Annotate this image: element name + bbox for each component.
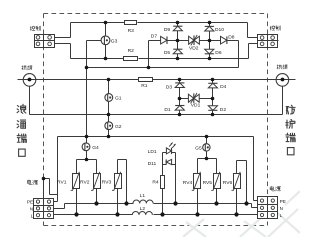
wire left control pin2 to row2 rail (55, 43, 71, 45)
diode D8 (221, 36, 227, 44)
wire RV4 bottom lead (197, 189, 199, 215)
svg-text:RV3: RV3 (102, 180, 112, 186)
wire left control pin1 to rail (55, 37, 71, 39)
wire R4 chain (162, 165, 164, 176)
svg-text:VD2: VD2 (189, 45, 199, 51)
wire RV4 top lead (197, 159, 199, 174)
wire enclosure bond (43, 179, 45, 199)
varistor RV1 (73, 174, 80, 189)
svg-text:L: L (31, 213, 34, 218)
wire L rail (54, 214, 133, 216)
diode D10 (205, 26, 214, 31)
svg-text:L1: L1 (140, 193, 146, 199)
svg-text:L2: L2 (140, 206, 146, 212)
svg-text:D1: D1 (164, 107, 171, 113)
diode D9 (173, 26, 182, 31)
diode D2 (208, 106, 217, 111)
wire N rail (54, 208, 65, 210)
inductor L2 (132, 212, 152, 215)
wire row2 rail (71, 58, 124, 60)
svg-text:RV4: RV4 (183, 180, 193, 186)
wire lower bridge left column (179, 80, 181, 115)
resistor R1 (139, 78, 153, 82)
wire LED loop right drop to N (175, 165, 177, 204)
wire G3 column (105, 23, 107, 59)
wire top control rail (71, 22, 125, 24)
tvs VD2 (189, 35, 200, 45)
svg-text:R3: R3 (128, 28, 135, 34)
inductor L1 (133, 200, 153, 203)
gas tube G4 (82, 143, 90, 151)
svg-text:G1: G1 (115, 96, 122, 102)
svg-text:G5: G5 (195, 146, 202, 152)
svg-text:D9: D9 (164, 27, 171, 33)
led LD1 (166, 143, 175, 155)
gas tube G2 (105, 122, 113, 130)
svg-text:LD1: LD1 (148, 149, 157, 155)
label power left (27, 180, 31, 185)
wire G5 column (206, 137, 208, 159)
wire RV1 top lead (76, 160, 78, 174)
wire right control pin1 to rail (247, 23, 249, 38)
diode D4 (208, 83, 217, 88)
gas tube G1 (105, 94, 113, 102)
connector control left (35, 35, 55, 48)
varistor RV6 (234, 174, 241, 189)
svg-text:D2: D2 (220, 107, 227, 113)
diode D6 (205, 49, 214, 54)
diode D7 (161, 36, 167, 44)
wire common rail y67 (87, 67, 239, 69)
label surge port (17, 104, 26, 113)
connector power left (34, 199, 54, 219)
svg-text:D11: D11 (148, 161, 157, 167)
svg-text:G3: G3 (111, 38, 118, 44)
wire clamp mid row (149, 40, 161, 42)
varistor RV2 (94, 174, 101, 189)
wire RV2 top lead (96, 160, 98, 174)
label protect port (286, 105, 295, 114)
wire D7 branch down (148, 41, 150, 68)
node bar RV4 RV5 (198, 158, 217, 160)
svg-text:PE: PE (27, 200, 33, 205)
svg-text:RV2: RV2 (80, 180, 90, 186)
wire RV3 top jog to N rail (117, 160, 119, 174)
wire D8 branch down (238, 41, 240, 68)
label video left (22, 66, 27, 70)
svg-text:N: N (280, 206, 283, 211)
wire G3 side lead (87, 40, 102, 42)
wire right control pin2 to row2 rail (249, 43, 258, 45)
svg-text:G2: G2 (115, 124, 122, 130)
label video right (277, 65, 282, 69)
wire G1 G2 column (108, 80, 110, 137)
resistor R3 (125, 21, 137, 25)
resistor R4 (161, 176, 165, 189)
svg-text:R2: R2 (128, 48, 135, 54)
wire RV1 bottom lead (76, 189, 78, 215)
svg-text:VD1: VD1 (191, 103, 201, 109)
wire RV2 bottom lead (96, 189, 98, 204)
svg-text:L: L (280, 213, 283, 218)
wire PE right drop (253, 137, 255, 201)
svg-text:D3: D3 (166, 84, 173, 90)
watermark strokes (183, 191, 300, 237)
wire RV5 bottom lead (216, 189, 218, 204)
label control left (30, 26, 35, 30)
varistor RV4 (194, 174, 201, 189)
label power right (270, 186, 274, 191)
svg-text:D10: D10 (215, 27, 224, 33)
gas tube G5 (203, 144, 210, 151)
BNC connector right (276, 74, 289, 87)
svg-text:N: N (30, 207, 33, 212)
svg-text:D7: D7 (151, 34, 158, 40)
varistor RV3 (115, 174, 122, 189)
label control right (270, 26, 275, 30)
diode D11 (166, 159, 171, 164)
wire lower bridge right column (212, 80, 214, 115)
diode D1 (175, 106, 184, 111)
svg-text:RV1: RV1 (57, 180, 67, 186)
gas tube G3 (101, 36, 110, 45)
wire RV6 top jog to N rail (236, 161, 238, 174)
wire lower bridge mid row (180, 98, 189, 100)
wire RV3 bottom lead (117, 189, 119, 215)
svg-text:D6: D6 (215, 50, 222, 56)
svg-text:R4: R4 (152, 179, 159, 185)
wire PE left drop (57, 137, 59, 202)
wire top bridge right column (209, 23, 211, 59)
wire right BNC shield drop (282, 87, 284, 115)
enclosure dashed border (44, 13, 268, 15)
varistor RV5 (214, 174, 221, 189)
svg-text:R1: R1 (141, 83, 148, 89)
diode D3 (175, 83, 184, 88)
svg-text:D5: D5 (164, 50, 171, 56)
connector power right (258, 197, 278, 219)
svg-text:RV5: RV5 (203, 180, 213, 186)
wire shield rail (30, 114, 283, 116)
BNC connector left (23, 74, 36, 87)
diode D5 (173, 49, 182, 54)
connector control right (258, 35, 278, 48)
tvs VD1 (188, 93, 199, 103)
svg-text:G4: G4 (92, 145, 99, 151)
svg-text:PE: PE (280, 199, 286, 204)
wire left BNC shield drop (29, 87, 31, 115)
wire vertical A (86, 41, 88, 137)
wire video signal rail (18, 79, 139, 81)
resistor R2 (124, 57, 138, 61)
svg-text:D8: D8 (228, 34, 235, 40)
svg-text:RV6: RV6 (223, 180, 233, 186)
wire G4 column (86, 137, 88, 160)
node bar RV1 RV2 (77, 159, 97, 161)
wire LED loop (162, 153, 164, 165)
wire RV5 top lead (216, 159, 218, 174)
svg-text:D4: D4 (220, 84, 227, 90)
wire top bridge left column (177, 23, 179, 59)
wire ground rail (58, 136, 254, 138)
junction dots (104, 21, 108, 25)
wire RV6 bottom lead (236, 189, 238, 215)
